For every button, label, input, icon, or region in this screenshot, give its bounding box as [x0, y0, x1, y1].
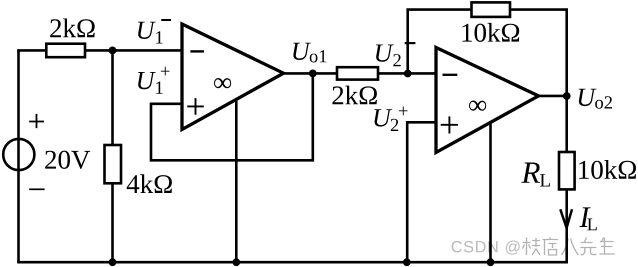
wire: node A drop through 4k resistor to rail — [111, 50, 114, 262]
node A junction dot — [109, 47, 117, 55]
rail junction dot under 4k — [109, 258, 117, 266]
label 10kΩ (RL value) — [579, 160, 636, 179]
voltage source minus sign — [29, 188, 44, 190]
resistor R2 4kΩ body — [105, 145, 122, 183]
node U2- junction dot — [404, 70, 412, 78]
label 20V — [45, 151, 90, 169]
wire: op-amp1 output to op-amp2 inverting input — [281, 72, 436, 75]
op-amp U1 minus marking — [190, 50, 204, 52]
wire: left vertical from source top to bottom rail — [17, 50, 20, 262]
label 4kΩ (R2) — [127, 174, 172, 193]
resistor R4 10kΩ feedback body — [472, 2, 511, 17]
label U2- — [376, 43, 415, 66]
label 10kΩ (R4) — [462, 23, 519, 42]
label Uo1 — [293, 43, 326, 63]
label 2kΩ (R3) — [332, 86, 377, 105]
op-amp U2 infinity gain marking — [469, 101, 486, 111]
label U1+ — [138, 67, 170, 94]
op-amp U1 infinity gain marking — [214, 78, 231, 88]
rail junction dot under U2+ loop — [403, 258, 411, 266]
resistor RL body — [559, 152, 575, 189]
watermark CSDN @楼店八先生 — [452, 237, 615, 255]
node Uo1 junction dot — [309, 70, 317, 78]
resistor R1 2kΩ body — [46, 44, 85, 58]
current arrow IL — [560, 209, 572, 228]
voltage source plus sign — [29, 114, 44, 128]
node Uo2 junction dot — [563, 92, 571, 100]
voltage source V1 — [3, 139, 34, 170]
label U2+ — [374, 107, 407, 132]
label Uo2 — [579, 89, 612, 109]
rail junction dot under op-amp1 — [232, 258, 240, 266]
label U1- — [138, 20, 171, 44]
op-amp U2 plus marking — [441, 116, 458, 133]
op-amp U1 — [182, 24, 284, 130]
wire: op-amp1 non-inverting input loop to Uo1 — [151, 73, 313, 160]
op-amp U2 — [436, 48, 539, 153]
wire: op-amp2 non-inverting input loop down to rail — [407, 122, 436, 262]
label RL — [521, 163, 550, 187]
label IL — [579, 207, 596, 230]
rail junction dot under op-amp2 — [487, 258, 495, 266]
wire: top-left horizontal to op-amp1 inverting input — [17, 49, 182, 52]
op-amp U2 minus marking — [443, 74, 458, 76]
wire: op-amp2 output to Uo2 node — [536, 95, 567, 98]
resistor R3 2kΩ body — [337, 67, 378, 79]
wire: drop from op-amp1 bottom edge to rail — [235, 95, 238, 262]
wire: bottom rail — [17, 261, 568, 264]
label 2kΩ (R1) — [50, 19, 94, 38]
wire: Uo2 down through RL to rail — [565, 96, 568, 262]
op-amp U1 plus marking — [187, 98, 204, 115]
wire: feedback loop node U2- up over 10k to Uo2 — [408, 10, 567, 97]
wire: drop from op-amp2 bottom edge to rail — [489, 110, 492, 262]
